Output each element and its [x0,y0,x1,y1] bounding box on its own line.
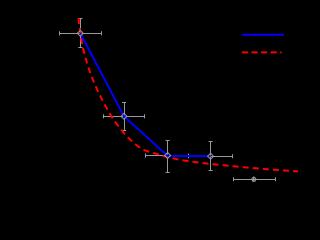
point P3 diamond marker [165,153,171,159]
point P4 x error bar [188,154,233,158]
point P4 y error bar [209,141,213,171]
point P1 x error bar [59,31,102,35]
legend blue line sample [242,34,284,36]
error bars group (gray) [59,18,276,181]
point P5 x error bar [233,177,275,181]
point P2 x error bar [103,114,145,118]
point P1 y error bar [78,18,82,48]
point P5 diamond marker [251,177,256,182]
point P1 diamond marker [77,30,83,36]
legend red dashed line sample [242,51,282,53]
point P2 y error bar [122,102,126,131]
red dashed fit curve [79,18,299,171]
blue data line [80,33,210,156]
point P4 diamond marker [208,153,214,159]
point P3 x error bar [145,154,189,158]
point P3 y error bar [166,141,170,173]
data point markers (gray diamonds) [77,30,256,181]
point P5 y error bar [252,178,256,182]
point P2 diamond marker [121,113,127,119]
